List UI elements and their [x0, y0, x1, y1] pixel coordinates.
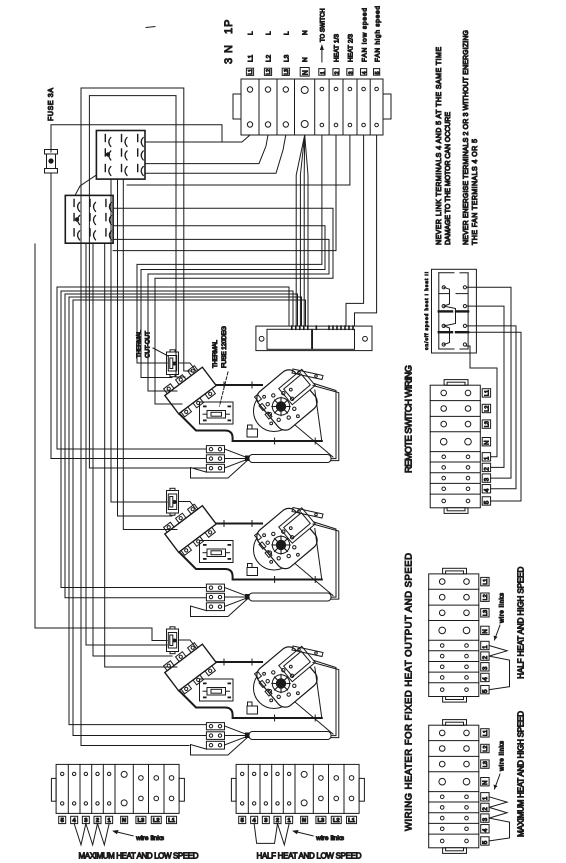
wire group from K1 to heater 2 — [111, 179, 167, 502]
wire: terminal 3 drop — [127, 135, 350, 185]
svg-text:WIRING HEATER FOR FIXED HEAT O: WIRING HEATER FOR FIXED HEAT OUTPUT AND … — [404, 553, 415, 831]
terminal labels L1 L2 L3 N 1-5 (boxed, rotated) — [246, 68, 253, 75]
wire links — [74, 824, 86, 845]
svg-text:wire links: wire links — [135, 835, 165, 842]
thermal cut-out — [167, 491, 179, 514]
svg-text:L2: L2 — [266, 69, 272, 75]
svg-text:wire links: wire links — [500, 741, 506, 772]
svg-text:L3: L3 — [283, 54, 290, 62]
wire: K2 output row 1 — [113, 208, 333, 404]
wire loop inner — [89, 96, 206, 468]
thermal fuse — [200, 679, 234, 701]
svg-text:L3: L3 — [483, 610, 489, 616]
maximum heat low speed block — [56, 764, 179, 813]
svg-text:3: 3 — [348, 71, 354, 74]
svg-text:L2: L2 — [483, 594, 489, 600]
svg-text:N: N — [302, 818, 306, 824]
wire: switch to terminal 2 — [467, 306, 505, 467]
svg-text:L3: L3 — [284, 69, 290, 75]
svg-text:4: 4 — [362, 71, 368, 74]
svg-text:L1: L1 — [248, 54, 255, 62]
thermal fuse — [200, 402, 234, 424]
svg-text:L1: L1 — [168, 818, 176, 824]
switch bank K2 (dashed contacts) — [65, 195, 113, 243]
earth terminal — [247, 706, 258, 714]
svg-text:N: N — [302, 30, 309, 35]
svg-text:HEAT 2/3: HEAT 2/3 — [348, 34, 355, 62]
wire links — [489, 646, 507, 657]
wire: terminal 2 drop to bank K2 — [113, 135, 336, 251]
svg-text:HALF HEAT AND LOW SPEED: HALF HEAT AND LOW SPEED — [257, 851, 362, 860]
svg-text:L: L — [266, 31, 273, 35]
heater frame — [314, 522, 336, 597]
svg-text:DAMAGE TO THE MOTOR CAN OCCURE: DAMAGE TO THE MOTOR CAN OCCURE — [445, 112, 452, 245]
svg-text:L3: L3 — [483, 761, 489, 767]
svg-text:L2: L2 — [266, 54, 273, 62]
wire group from K2 to heater 3 — [86, 243, 167, 645]
earth terminal — [247, 568, 258, 576]
wire: element bank to motor — [217, 523, 262, 525]
svg-text:L1: L1 — [483, 579, 489, 585]
svg-text:on/off speed heat I heat II: on/off speed heat I heat II — [424, 272, 429, 350]
half heat low speed block — [236, 764, 359, 813]
heater element bank (rotated) — [161, 639, 220, 695]
terminal strip 3x2 — [206, 723, 224, 730]
svg-text:HEAT 1/3: HEAT 1/3 — [334, 34, 341, 62]
fan motor — [254, 668, 295, 709]
svg-text:MAXIMUM HEAT AND HIGH SPEED: MAXIMUM HEAT AND HIGH SPEED — [517, 711, 526, 837]
wire: N fan-out to connector — [296, 135, 305, 326]
wire: L3 drop — [145, 135, 286, 173]
svg-text:L1: L1 — [348, 818, 356, 824]
svg-text:N: N — [483, 781, 489, 785]
wire: K1 row1 link — [145, 141, 222, 143]
svg-text:THERMAL: THERMAL — [136, 330, 143, 358]
svg-text:L: L — [283, 31, 290, 35]
air funnel — [191, 459, 250, 478]
half heat low speed block labels — [239, 816, 246, 823]
svg-text:L2: L2 — [333, 818, 340, 824]
wire: K2 output row 2 — [113, 226, 325, 378]
remote terminal block — [430, 385, 480, 508]
switch bank K1 (dashed contacts) — [96, 131, 145, 180]
stray mark — [146, 27, 155, 28]
wire: neutral cross links to connector — [57, 287, 289, 326]
heating element tube — [249, 455, 331, 463]
svg-text:5: 5 — [375, 71, 381, 74]
heating element tube — [249, 593, 331, 601]
maximum heat high speed block — [429, 725, 479, 848]
maximum heat high speed block labels — [481, 729, 489, 737]
wire: switch to terminal 1 — [466, 346, 497, 457]
wire: lower bus — [180, 553, 322, 580]
earth terminal — [247, 429, 258, 437]
thermal cut-out — [167, 352, 179, 375]
air funnel — [191, 736, 250, 755]
connector rail TB2 — [256, 326, 372, 351]
wire: lower bus — [180, 414, 322, 441]
svg-text:CUT-OUT: CUT-OUT — [145, 331, 152, 358]
svg-text:L3: L3 — [484, 421, 490, 427]
svg-text:REMOTE SWITCH WIRING: REMOTE SWITCH WIRING — [404, 365, 415, 473]
heating element tube — [249, 732, 331, 740]
svg-text:N: N — [302, 57, 309, 62]
svg-text:FUSE 120DEG: FUSE 120DEG — [221, 326, 228, 368]
heater element bank (rotated) — [161, 362, 220, 418]
wire: L1 to fuse — [51, 125, 250, 142]
svg-text:L: L — [248, 31, 255, 35]
wire: lower bus — [180, 691, 322, 718]
half heat high speed block — [429, 574, 479, 697]
terminal strip 3x2 — [206, 446, 224, 453]
svg-text:L3: L3 — [318, 818, 326, 824]
heater frame — [314, 384, 336, 459]
svg-text:L2: L2 — [153, 818, 160, 824]
svg-text:N: N — [302, 70, 309, 75]
svg-text:HALF HEAT AND HIGH SPEED: HALF HEAT AND HIGH SPEED — [517, 567, 526, 679]
svg-text:FAN high speed: FAN high speed — [374, 6, 381, 62]
wire links — [254, 824, 277, 844]
svg-text:MAXIMUM HEAT AND LOW SPEED: MAXIMUM HEAT AND LOW SPEED — [79, 851, 199, 860]
wire: neutral rails to element strips — [57, 287, 206, 449]
terminal block X1 (mains L1 L2 L3 N 1 2 3 4 5) — [241, 79, 383, 135]
left mounting tab of block X1 — [233, 94, 241, 119]
fan motor — [254, 529, 295, 570]
wire: switch to terminal 5 — [467, 332, 522, 501]
svg-text:1P: 1P — [223, 20, 235, 35]
svg-text:L2: L2 — [483, 746, 489, 752]
heater frame — [314, 661, 336, 736]
svg-text:NEVER ENERGISE TERMINALS 2 OR: NEVER ENERGISE TERMINALS 2 OR 3 WITHOUT … — [463, 30, 470, 245]
wire: terminal 1 drop to heater 1 cut-out — [137, 135, 322, 363]
wire: K2 output row 3 — [113, 239, 329, 391]
svg-text:N: N — [484, 441, 490, 445]
svg-text:THE FAN TERMINALS 4 OR 5: THE FAN TERMINALS 4 OR 5 — [472, 139, 479, 245]
remote switch S1 — [432, 269, 477, 353]
remote terminal block labels — [482, 389, 490, 397]
svg-text:NEVER LINK TERMINALS 4 AND 5 A: NEVER LINK TERMINALS 4 AND 5 AT THE SAME… — [436, 47, 443, 245]
wire links — [489, 797, 507, 808]
svg-text:N: N — [122, 818, 126, 824]
svg-text:L1: L1 — [483, 730, 489, 736]
svg-text:FAN low speed: FAN low speed — [361, 8, 368, 62]
svg-text:L1: L1 — [484, 390, 490, 396]
motor bracket — [292, 646, 323, 657]
svg-text:L2: L2 — [484, 406, 490, 412]
function labels TO SWITCH / HEAT / FAN — [321, 48, 323, 62]
svg-text:wire links: wire links — [315, 835, 345, 842]
svg-text:2: 2 — [334, 71, 340, 74]
fan motor — [254, 391, 295, 432]
motor bracket — [292, 369, 323, 380]
svg-text:1: 1 — [320, 71, 326, 74]
right mounting tab of block X1 — [383, 94, 391, 119]
wire: switch to terminal 4 — [467, 326, 517, 489]
svg-text:THERMAL: THERMAL — [212, 340, 219, 368]
wire: fuse feed rail — [35, 244, 167, 641]
heater unit 1 — [161, 350, 339, 478]
svg-text:L1: L1 — [248, 69, 254, 75]
svg-text:L3: L3 — [138, 818, 146, 824]
wire: switch to terminal 3 — [467, 287, 512, 478]
wire links label — [295, 831, 314, 836]
wire loop outer — [81, 88, 192, 746]
svg-text:TO SWITCH: TO SWITCH — [321, 8, 327, 42]
thermal fuse — [200, 541, 234, 563]
wire: terminal 5 to connector — [355, 135, 377, 326]
wire: terminal 4 to connector — [346, 135, 364, 326]
svg-text:wire links: wire links — [500, 593, 506, 624]
motor bracket — [292, 508, 323, 519]
wire: element bank to motor — [217, 661, 262, 663]
fuse F1 symbol — [50, 141, 52, 152]
maximum heat low speed block labels — [59, 816, 66, 823]
terminal strip 3x2 — [206, 584, 224, 591]
wire: element bank to motor — [217, 384, 262, 386]
heater unit 3 — [161, 627, 339, 755]
thermal cut-out — [167, 629, 179, 652]
heater unit 2 — [161, 488, 339, 616]
wire links label — [115, 831, 134, 836]
air funnel — [191, 598, 250, 617]
heater element bank (rotated) — [161, 501, 220, 557]
svg-text:FUSE 3A: FUSE 3A — [48, 88, 55, 121]
half heat high speed block labels — [481, 577, 489, 585]
wire: L2 drop — [145, 135, 268, 164]
wire: K1 lower-left to K2 — [75, 175, 96, 195]
svg-text:N: N — [483, 629, 489, 633]
